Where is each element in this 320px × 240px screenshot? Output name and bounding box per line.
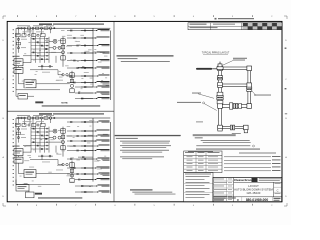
svg-text:C: C (277, 188, 279, 192)
svg-text:TYPICAL PIPING LAYOUT: TYPICAL PIPING LAYOUT (202, 52, 230, 55)
svg-text:NOTE:: NOTE: (61, 102, 68, 104)
svg-text:880-01989-000: 880-01989-000 (246, 198, 269, 202)
svg-text:AUTO BLOW DOWN SYSTEM: AUTO BLOW DOWN SYSTEM (234, 188, 273, 192)
svg-text:GPL 25/100: GPL 25/100 (247, 191, 261, 195)
